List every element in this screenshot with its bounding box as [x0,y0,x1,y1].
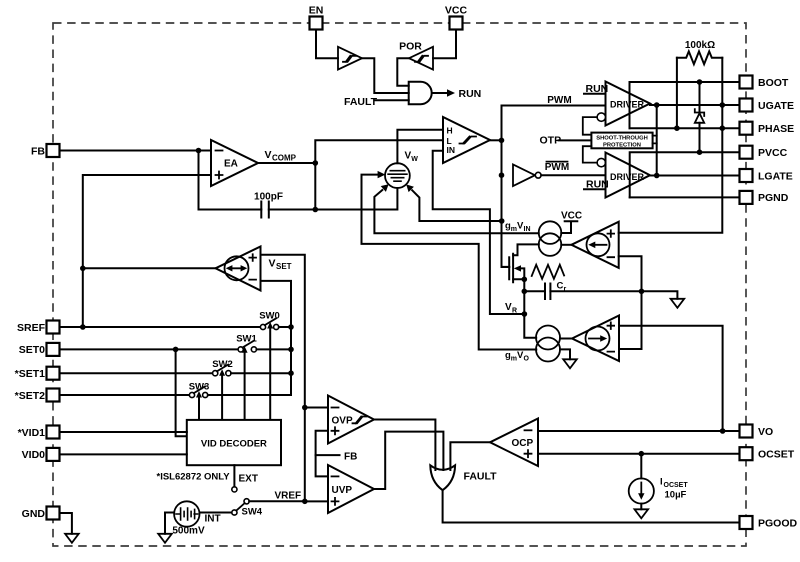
svg-text:OCP: OCP [512,438,534,449]
junction OVP minus rail [302,405,308,411]
label IOCSET [660,477,688,501]
current source gmVin [539,221,562,256]
svg-text:FAULT: FAULT [464,471,498,483]
svg-text:PWM: PWM [547,95,571,106]
svg-text:100kΩ: 100kΩ [685,40,715,51]
wire PWM to high driver [502,105,606,107]
junction swbus SREF [288,324,294,330]
wire VCOMP to window comparator L input [315,140,443,163]
wire SW1 to bus [257,348,292,350]
svg-text:SW3: SW3 [189,381,210,392]
svg-text:SW2: SW2 [212,359,233,370]
svg-text:OCSET: OCSET [758,449,795,461]
svg-text:SREF: SREF [17,322,46,334]
wire FAULT to AND gate [375,99,409,101]
wire to VW lower-right arrow [412,190,502,221]
wire Cr right to ground [550,291,677,299]
svg-text:I: I [660,477,663,488]
decoder arrow SW3 [198,397,200,420]
node FB protection [316,431,328,477]
and gate RUN [409,82,432,104]
svg-text:EXT: EXT [239,474,258,485]
wire FB to EA inverting input [60,150,212,152]
wire SW2 to bus [231,372,291,374]
wire BOOT line and floating rail [630,82,740,128]
svg-text:PHASE: PHASE [758,123,794,135]
wire cap to VCOMP node [269,163,316,210]
pin SREF [17,321,60,334]
pin *SET2 [15,389,60,402]
pin FB [31,144,60,157]
comparator OCP [490,419,538,467]
svg-text:H: H [447,125,453,135]
junction VR [522,311,528,317]
svg-text:VCC: VCC [445,5,468,17]
switch SW1 [236,333,257,352]
svg-text:10µF: 10µF [665,490,687,501]
svg-text:UVP: UVP [332,485,353,496]
pin SET0 [19,343,60,356]
wire VREF [249,500,305,502]
svg-text:O: O [524,356,530,363]
svg-text:COMP: COMP [272,154,297,163]
svg-text:VO: VO [758,426,773,438]
wire box right stubs [653,136,657,144]
svg-text:IN: IN [524,226,531,233]
pin UGATE [740,99,794,112]
svg-text:500mV: 500mV [172,526,205,537]
svg-text:PGOOD: PGOOD [758,517,798,529]
switch SW0 [259,310,280,329]
wire SET1 to SW2 [60,372,213,374]
wire UGATE line [650,104,740,106]
svg-text:BOOT: BOOT [758,77,789,89]
switch SW4 [232,499,263,518]
pin PGOOD [740,516,798,529]
inverter PWM [513,165,541,187]
wire EA output VCOMP [258,162,315,164]
svg-text:W: W [411,156,418,163]
resistor 100kOhm [677,51,722,64]
wire low bubble to shoot-through box [583,146,597,162]
wire PHASE line [630,127,740,129]
wire UVP output to OR [374,432,443,489]
wire OVP output to OR [374,420,435,471]
wire OCP output to OR [450,442,490,470]
wire UVP plus input [305,500,328,502]
svg-text:EN: EN [309,5,324,17]
wire SET0 branch to decoder [176,349,187,436]
svg-text:UGATE: UGATE [758,100,794,112]
pin GND [22,507,60,520]
wire VSET amp output [83,267,216,269]
junction UGATE driver [654,102,660,108]
wire FAULT to PGOOD [443,490,740,522]
svg-text:LGATE: LGATE [758,170,793,182]
wire PWMbar to low driver [541,174,605,176]
junction VO [720,428,726,434]
label VR [505,302,517,315]
wire EN pin to buffer [316,30,338,59]
svg-text:*VID1: *VID1 [18,427,46,439]
wire VID0 to decoder [60,453,187,455]
svg-text:PGND: PGND [758,192,789,204]
junction Cr left [522,289,528,295]
wire RUN stub low driver [584,188,606,190]
svg-text:SW4: SW4 [242,507,263,518]
label PWMbar [545,162,569,173]
wire SW0 to bus [279,326,291,328]
svg-text:*SET2: *SET2 [15,390,46,402]
block VID DECODER [187,420,281,465]
decoder arrow SW0 [269,328,271,420]
pin *VID1 [18,426,60,439]
mosfet ripple switch [502,244,539,282]
junction PHASE 100k left [674,125,680,131]
transconductance amp gmVin [571,222,618,268]
terminal EXT [232,487,237,492]
wire POR to AND gate [397,58,409,85]
wire EXT from decoder [233,465,235,486]
wire VCC pin to POR [433,30,456,59]
source 500mV [174,501,199,526]
svg-text:SET: SET [276,262,292,271]
pin VO [740,425,774,438]
wire FB feedback to compensation cap [199,151,262,210]
switch SW3 [189,381,210,397]
wire OTP to box [559,139,592,141]
junction UGATE 100k [720,102,726,108]
decoder arrow SW2 [221,375,223,420]
pin EN [309,5,324,30]
decoder arrow SW1 [244,352,246,420]
label VSET [269,258,292,272]
bubble input high driver [597,113,605,121]
wire 100k right to gmVin plus [619,58,723,233]
ground IOCSET [635,509,649,518]
current source gmVo [536,326,560,362]
pin PHASE [740,122,795,135]
pin PVCC [740,146,788,159]
pin OCSET [740,447,795,460]
amp VSET [216,247,261,291]
wire high bubble to shoot-through box [583,117,597,135]
junction bus comparator [499,138,505,144]
pin PGND [740,191,789,204]
wire to VW lower-left arrow [374,190,538,233]
wire EA noninverting rail [83,175,211,327]
wire 500mV to SW4 [200,512,232,514]
junction VREF rail [302,499,308,505]
junction FB node [196,148,202,154]
comparator OVP [328,396,374,444]
ground gmVo [563,359,577,368]
wire VSET plus to reference rail [261,255,305,501]
wire Cr left [524,290,545,292]
comparator window H L IN [443,117,490,163]
wire gmVin minus to Cr node to gmVo minus [619,256,642,349]
svg-text:VCC: VCC [561,211,582,222]
ground Cr [671,299,685,308]
capacitor 100pF [254,192,283,218]
junction OCSET [639,451,645,457]
diode bootstrap zener [695,82,704,152]
junction PVCC diode [697,149,703,155]
window voltage generator VW [385,163,410,188]
svg-text:FAULT: FAULT [344,96,378,108]
wire FB stub [316,454,340,456]
label gmVo [505,350,530,363]
block shoot-through protection [591,133,652,149]
svg-text:100pF: 100pF [254,192,283,203]
svg-text:INT: INT [205,514,221,525]
wire gmVo plus to VO [619,326,723,431]
wire VID1 to decoder [60,431,187,433]
pin VCC top [445,5,468,30]
buffer EN schmitt [338,47,362,70]
junction rail SREF [80,324,86,330]
wire PWM bus vertical [502,106,510,267]
svg-text:VREF: VREF [275,491,302,502]
comparator UVP [328,465,374,513]
wire VCOMP node to VW generator bottom [315,188,397,210]
svg-text:OCSET: OCSET [664,482,689,489]
resistor 100k left lead [676,58,678,128]
wire VW to window comparator H input [397,130,443,164]
wire VO line [538,430,740,432]
junction bus gmVin [499,218,505,224]
wire OCSET line [538,453,740,455]
svg-text:PROTECTION: PROTECTION [603,142,641,148]
wire PGND line [630,196,740,198]
capacitor Cr [545,281,567,300]
wire SREF to SW0 [60,326,261,328]
junction swbus SET0 [288,347,294,353]
label VW [405,151,419,164]
svg-text:DRIVER: DRIVER [610,99,645,109]
svg-text:IN: IN [447,145,456,155]
svg-text:R: R [512,308,517,315]
junction rail VSET [80,266,86,272]
wire GND pin to ground [60,513,72,534]
wire source to VR to gmVo [524,279,536,338]
current source IOCSET [629,454,654,510]
junction PHASE 100k right [720,125,726,131]
svg-text:SW0: SW0 [259,310,280,321]
wire AND output [433,92,448,94]
label gmVin [505,221,531,234]
svg-text:VID DECODER: VID DECODER [201,438,267,449]
wire VSET minus to switch bus [261,281,292,395]
svg-text:SW1: SW1 [236,333,257,344]
label VCOMP [265,149,297,163]
pin *SET1 [15,367,60,380]
wire OVP minus input [305,407,328,409]
driver high-side [606,82,651,126]
pin LGATE [740,169,793,182]
ground GND [65,534,79,543]
svg-text:C: C [557,281,564,292]
svg-text:SHOOT-THROUGH: SHOOT-THROUGH [596,136,648,142]
wire SET0 to SW1 [60,348,239,350]
svg-text:V: V [269,258,276,270]
wire PVCC line and low rail [630,152,740,197]
resistor ripple (floating) [532,265,564,279]
svg-text:PVCC: PVCC [758,147,788,159]
svg-text:SET0: SET0 [19,344,45,356]
svg-text:OVP: OVP [332,416,353,427]
bubble input low driver [597,158,605,166]
wire SET2 to SW3 [60,394,190,396]
svg-text:DRIVER: DRIVER [610,172,645,182]
svg-text:VID0: VID0 [22,449,46,461]
switch SW2 [212,359,233,376]
svg-text:PWM: PWM [545,162,569,173]
svg-text:GND: GND [22,508,46,520]
ground 500mV [158,534,172,543]
wire gmVo ground stub [560,349,570,359]
pin BOOT [740,76,789,89]
svg-text:*SET1: *SET1 [15,368,46,380]
wire EN buffer to AND gate [362,58,409,93]
svg-text:FB: FB [344,452,357,463]
wire comparator output to PWM bus [490,139,502,141]
wire 500mV to ground [165,513,174,534]
wire gmVin current to VW left arrow [362,175,537,350]
junction LGATE driver [654,173,660,179]
wire LGATE line [650,175,740,177]
svg-text:POR: POR [399,41,422,53]
wire comparator IN input from VR [433,151,525,314]
pin VID0 [22,448,60,461]
wire gmVo circles to amp tip [560,338,572,340]
junction bus inverter [499,172,505,178]
junction SET0 decoder branch [173,347,179,353]
svg-text:FB: FB [31,145,45,157]
wire gmVin circles to amp tip [561,244,571,246]
wire UGATE to LGATE vertical [656,105,658,176]
svg-text:RUN: RUN [459,88,482,100]
junction mosfet source [522,277,528,283]
supply VCC tee [561,221,577,233]
junction BOOT diode [697,79,703,85]
svg-text:EA: EA [224,159,238,170]
op-amp EA [211,140,258,186]
svg-text:V: V [505,302,512,313]
transconductance amp gmVo [572,316,619,362]
svg-text:V: V [265,149,272,161]
wire RUN stub high driver [584,93,606,95]
junction swbus SET1 [288,370,294,376]
wire SW3 to bus [208,394,291,396]
or gate FAULT [430,465,455,490]
junction Cr right [639,289,645,295]
buffer POR [409,47,433,70]
driver low-side [606,153,651,198]
svg-text:*ISL62872 ONLY: *ISL62872 ONLY [157,472,231,483]
